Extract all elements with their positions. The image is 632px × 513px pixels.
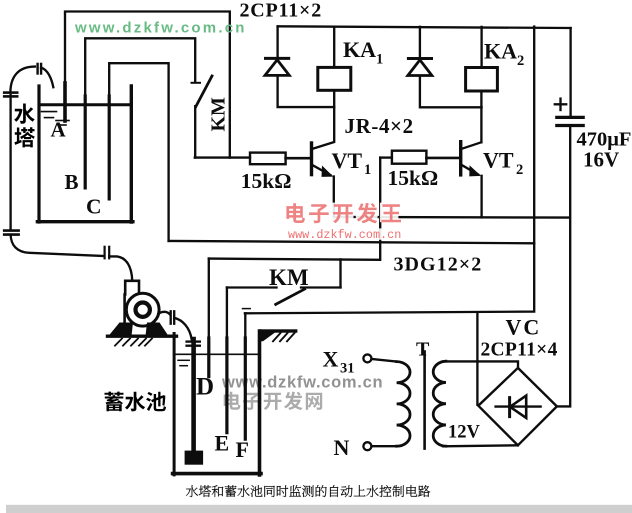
svg-text:VT: VT bbox=[332, 148, 363, 173]
svg-text:2: 2 bbox=[516, 162, 523, 178]
svg-text:31: 31 bbox=[340, 361, 355, 377]
svg-text:2: 2 bbox=[517, 53, 524, 69]
svg-text:A: A bbox=[51, 118, 67, 142]
svg-text:2CP11×4: 2CP11×4 bbox=[481, 340, 558, 361]
svg-text:F: F bbox=[236, 437, 249, 462]
svg-text:1: 1 bbox=[364, 162, 371, 178]
svg-text:X: X bbox=[323, 347, 339, 372]
svg-text:KM: KM bbox=[208, 97, 230, 132]
svg-text:www.dzkfw.com.cn: www.dzkfw.com.cn bbox=[74, 19, 247, 36]
svg-text:B: B bbox=[65, 170, 79, 194]
svg-text:16V: 16V bbox=[583, 148, 619, 172]
svg-text:VC: VC bbox=[506, 315, 542, 340]
svg-text:3DG12×2: 3DG12×2 bbox=[394, 254, 483, 276]
svg-text:1: 1 bbox=[376, 52, 383, 68]
svg-text:N: N bbox=[334, 435, 350, 460]
svg-text:KA: KA bbox=[343, 37, 376, 62]
svg-text:KA: KA bbox=[484, 39, 517, 64]
svg-text:JR-4×2: JR-4×2 bbox=[345, 114, 414, 138]
svg-text:12V: 12V bbox=[448, 423, 481, 443]
svg-text:15kΩ: 15kΩ bbox=[388, 166, 439, 190]
svg-text:VT: VT bbox=[483, 148, 514, 173]
svg-text:E: E bbox=[215, 430, 230, 455]
svg-text:15kΩ: 15kΩ bbox=[241, 169, 292, 193]
svg-text:2CP11×2: 2CP11×2 bbox=[240, 0, 323, 22]
svg-text:D: D bbox=[196, 374, 214, 401]
svg-text:www.dzkfw.com.cn: www.dzkfw.com.cn bbox=[288, 228, 401, 242]
svg-text:T: T bbox=[416, 339, 430, 361]
svg-text:C: C bbox=[86, 195, 102, 219]
svg-text:KM: KM bbox=[269, 265, 309, 290]
